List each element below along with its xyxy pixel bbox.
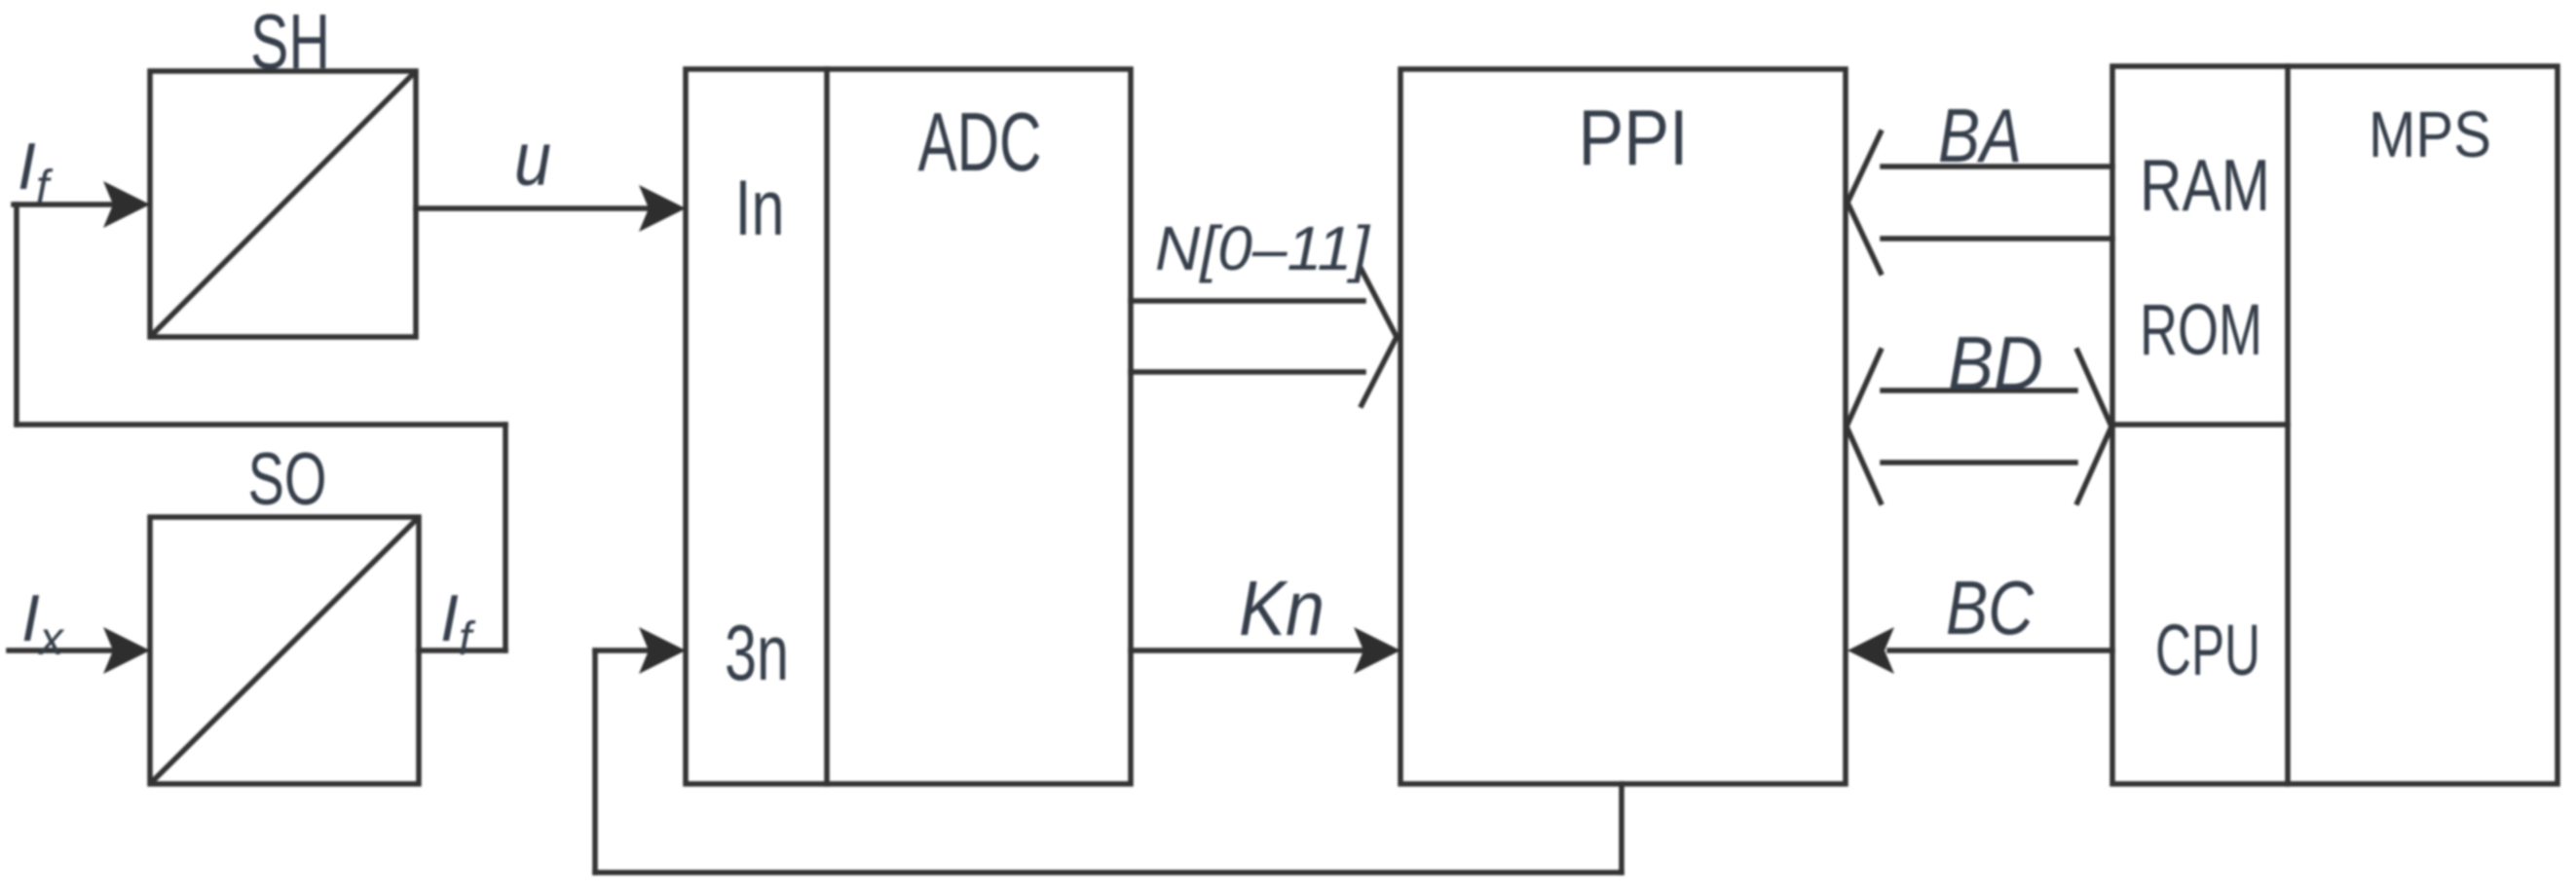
wire SO output to feedback	[419, 648, 505, 653]
wire feedback horizontal y436	[17, 422, 505, 427]
svg-text:ADC: ADC	[918, 96, 1042, 189]
block MPS ROM/CPU divider	[2112, 422, 2288, 427]
arrowhead Kn into PPI	[1354, 627, 1400, 674]
svg-text:CPU: CPU	[2155, 610, 2260, 690]
block ADC box	[686, 69, 1131, 784]
svg-text:Kn: Kn	[1239, 565, 1325, 651]
block SO box	[150, 517, 419, 784]
svg-text:In: In	[735, 165, 785, 252]
block MPS inner vertical divider	[2285, 66, 2291, 784]
svg-text:u: u	[514, 116, 551, 202]
svg-text:BC: BC	[1946, 565, 2035, 650]
wire 3n feedback bottom horizontal	[595, 870, 1622, 875]
svg-text:RAM: RAM	[2140, 144, 2270, 226]
svg-text:SH: SH	[250, 0, 330, 85]
svg-text:3n: 3n	[725, 610, 789, 697]
bus BD bottom line	[1883, 460, 2075, 465]
bus BD left open arrowhead	[1847, 351, 1881, 502]
svg-text:BD: BD	[1948, 320, 2043, 406]
arrowhead Ix into SO	[103, 627, 150, 674]
wire 3n feedback vertical right x1665 from PPI bottom	[1619, 784, 1624, 872]
arrowhead If into SH	[103, 181, 150, 228]
bus BA top line	[1883, 164, 2112, 169]
wire feedback vertical x519	[503, 425, 508, 650]
svg-text:ROM: ROM	[2140, 289, 2262, 370]
block PPI box	[1400, 69, 1846, 784]
block ADC divider	[824, 69, 830, 784]
svg-text:SO: SO	[248, 438, 327, 521]
wire Kn ADC to PPI	[1131, 648, 1365, 653]
bus N[0-11] bottom line	[1131, 369, 1363, 375]
arrowhead BC into PPI	[1848, 627, 1894, 674]
arrowhead u into ADC	[639, 185, 686, 232]
wire Ix input	[9, 648, 115, 653]
svg-text:MPS: MPS	[2369, 98, 2491, 171]
wire BC CPU to PPI	[1889, 648, 2112, 653]
block SO diagonal	[152, 519, 417, 782]
wire 3n feedback vertical left x611	[592, 650, 598, 872]
wire If feedback vertical left	[14, 204, 19, 425]
bus BA open arrowhead	[1848, 132, 1881, 273]
svg-text:Ix: Ix	[21, 581, 65, 665]
svg-text:N[0–11]: N[0–11]	[1155, 213, 1370, 283]
svg-text:BA: BA	[1938, 93, 2022, 178]
bus N[0-11] open arrowhead	[1362, 270, 1397, 405]
svg-text:If: If	[440, 581, 476, 665]
bus BD top line	[1883, 388, 2075, 393]
wire u SH to ADC	[416, 205, 651, 211]
block MPS box	[2112, 66, 2557, 784]
svg-text:PPI: PPI	[1579, 94, 1689, 182]
arrowhead 3n into ADC	[639, 627, 686, 674]
wire If input horizontal	[14, 202, 115, 207]
block SH box	[150, 71, 416, 337]
block SH diagonal	[152, 73, 414, 335]
bus BA bottom line	[1883, 236, 2112, 241]
svg-text:If: If	[18, 130, 54, 213]
wire 3n arrow line	[595, 648, 651, 653]
bus N[0-11] top line	[1131, 298, 1363, 304]
bus BD right open arrowhead	[2077, 351, 2111, 502]
